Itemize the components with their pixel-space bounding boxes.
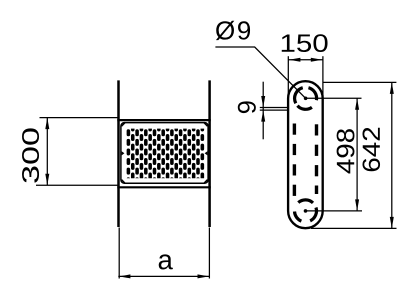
dim 9 extension line lower: [260, 109, 289, 111]
hole top (O9) arc bottom: [297, 106, 311, 110]
dim 642 dimension line: [391, 82, 393, 228]
dim a dimension line: [118, 275, 209, 277]
dim 300 arrow up: [45, 118, 49, 130]
dim label 9: [238, 101, 256, 113]
panel locating pip left: [122, 151, 125, 155]
dim 300 extension line top: [40, 117, 119, 119]
panel corner chamfer bottom-right: [204, 180, 208, 184]
dim 9 arrow up (below): [261, 110, 265, 122]
dim 300 arrow down: [45, 174, 49, 186]
hole bottom arc top: [298, 200, 313, 203]
dim a extension line left: [118, 228, 120, 279]
wire: tube bottom edge: [117, 186, 211, 188]
hole bottom arc right: [310, 208, 316, 221]
dim label 498: [337, 129, 355, 173]
dim label 300: [22, 128, 39, 182]
panel locating pip right: [205, 151, 208, 155]
dim 642 arrow down: [390, 217, 394, 229]
dim a extension line right: [208, 228, 210, 279]
dim 9 dimension line: [262, 82, 264, 140]
leader line for O9: [215, 47, 305, 98]
dim 498 arrow down: [355, 199, 359, 211]
panel corner chamfer bottom-left: [122, 180, 126, 184]
dim 300 dimension line: [46, 118, 48, 186]
dim 150 arrow right: [311, 58, 323, 62]
dim 300 extension line bottom: [36, 184, 118, 186]
hole bottom center dot: [304, 209, 308, 213]
dim 9 arrow down (above): [261, 96, 265, 108]
hole top center dot: [304, 97, 308, 101]
dim label 642: [362, 128, 380, 172]
perforation hole pattern: [127, 124, 205, 184]
capsule tube outline (end view): [288, 81, 323, 228]
hole top (O9) arc right: [308, 88, 316, 101]
dim label 150: [282, 34, 328, 52]
hole bottom arc left: [295, 211, 302, 221]
dim 150 extension line left: [287, 56, 289, 98]
wire: left pipe left wall: [117, 80, 120, 227]
hidden perforation dashes left column: [293, 124, 296, 135]
dim 498 arrow up: [355, 98, 359, 110]
hidden perforation dashes right column: [315, 124, 318, 135]
wire: left pipe right wall: [208, 80, 211, 227]
dim 150 arrow left: [289, 58, 301, 62]
panel corner chamfer top-left: [122, 122, 126, 126]
dim 642 extension line bottom: [311, 227, 397, 229]
dim 498 dimension line: [356, 98, 358, 211]
wire: tube top edge: [117, 119, 211, 121]
perforated panel outline: [121, 123, 208, 184]
dim 642 extension line top: [323, 81, 397, 83]
dim 9 extension line upper: [260, 107, 289, 109]
dim 150 extension line right: [322, 56, 324, 104]
dim label a: [159, 254, 173, 269]
dim a arrow left: [119, 274, 130, 278]
dim a arrow right: [198, 274, 210, 278]
panel corner chamfer top-right: [204, 122, 208, 126]
dim 498 extension line top: [306, 97, 362, 99]
dim 150 dimension line: [288, 59, 323, 61]
dim label O9: [216, 21, 250, 40]
dim 498 extension line bottom: [306, 210, 363, 212]
hole top (O9) arc left: [295, 88, 303, 104]
dim 642 arrow up: [390, 82, 394, 94]
